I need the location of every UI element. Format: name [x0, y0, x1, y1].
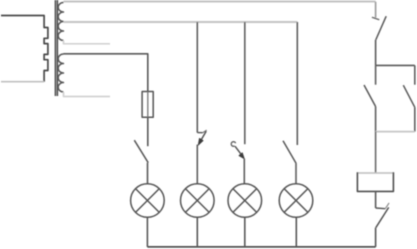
switch S4 blade — [283, 141, 296, 164]
switch S1 blade — [134, 140, 148, 163]
wire column 4 upper — [296, 22, 298, 145]
wire top line drop at right — [375, 2, 377, 18]
switch S7 blade — [403, 85, 415, 107]
wire parallel bottom tie — [376, 131, 415, 133]
switch S5 tick — [372, 17, 379, 20]
switch S7 upper stub — [414, 65, 416, 84]
transformer T1 secondary winding S2 (bottom) — [58, 54, 63, 92]
switch S6 lower stub — [375, 107, 377, 132]
wire switch S1 to lamp L1 — [147, 163, 149, 184]
switch S6 blade — [364, 85, 376, 107]
wire primary bottom lead — [1, 81, 44, 83]
transformer T1 primary winding — [1, 16, 48, 82]
lamp L4 — [279, 184, 313, 218]
wire coil to switch S8 — [375, 191, 377, 208]
wire bottom bus — [147, 246, 375, 248]
switch S5 blade — [376, 16, 386, 40]
lamp L2 — [181, 184, 215, 218]
wire lamp L3 to bus — [244, 217, 246, 247]
wire column 2 upper — [196, 22, 198, 133]
switch S6 upper stub — [375, 65, 377, 84]
switch S3 blade — [235, 146, 243, 157]
wire center-tap line — [64, 21, 298, 23]
relay coil K1 — [357, 172, 393, 191]
switch S2 arrowhead — [198, 138, 203, 145]
wire switch S8 to bus — [375, 228, 377, 247]
wire switch S4 to lamp L4 — [295, 164, 297, 184]
fuse F1 — [142, 92, 153, 118]
switch S3 arrowhead — [239, 153, 244, 159]
switch S8 blade — [376, 207, 389, 227]
wire switch S3 to lamp L3 — [243, 159, 245, 184]
wire top line — [64, 1, 376, 3]
wire through fuse — [147, 92, 149, 118]
switch S2 tick — [197, 132, 202, 134]
wire lamp L4 to bus — [295, 217, 297, 247]
switch S3 hook loop — [231, 142, 235, 147]
switch S8 tick — [376, 207, 386, 210]
switch S2 blade — [199, 131, 206, 143]
wire S1 lower stub — [64, 41, 111, 44]
wire lamp L2 to bus — [196, 217, 198, 247]
switch S2 hook — [203, 130, 207, 133]
wire switch S5 to parallel pair — [375, 40, 377, 66]
wire parallel pair to coil — [375, 132, 377, 173]
switch S8 hook — [385, 203, 389, 209]
transformer T1 secondary winding S1 (top) — [58, 3, 63, 41]
wire fuse to switch S1 — [147, 117, 149, 146]
wire S2 lower stub — [64, 92, 111, 97]
lamp L3 — [228, 184, 262, 218]
wire switch S2 to lamp L2 — [196, 145, 198, 184]
wire parallel top tie — [376, 64, 415, 66]
transformer T1 core — [55, 0, 57, 96]
wire lamp L1 to bus — [146, 217, 148, 247]
switch S7 lower stub — [414, 107, 416, 131]
lamp L1 — [131, 184, 165, 218]
wire S2 top lead to fuse column — [64, 54, 148, 92]
wire column 3 upper — [244, 22, 246, 144]
